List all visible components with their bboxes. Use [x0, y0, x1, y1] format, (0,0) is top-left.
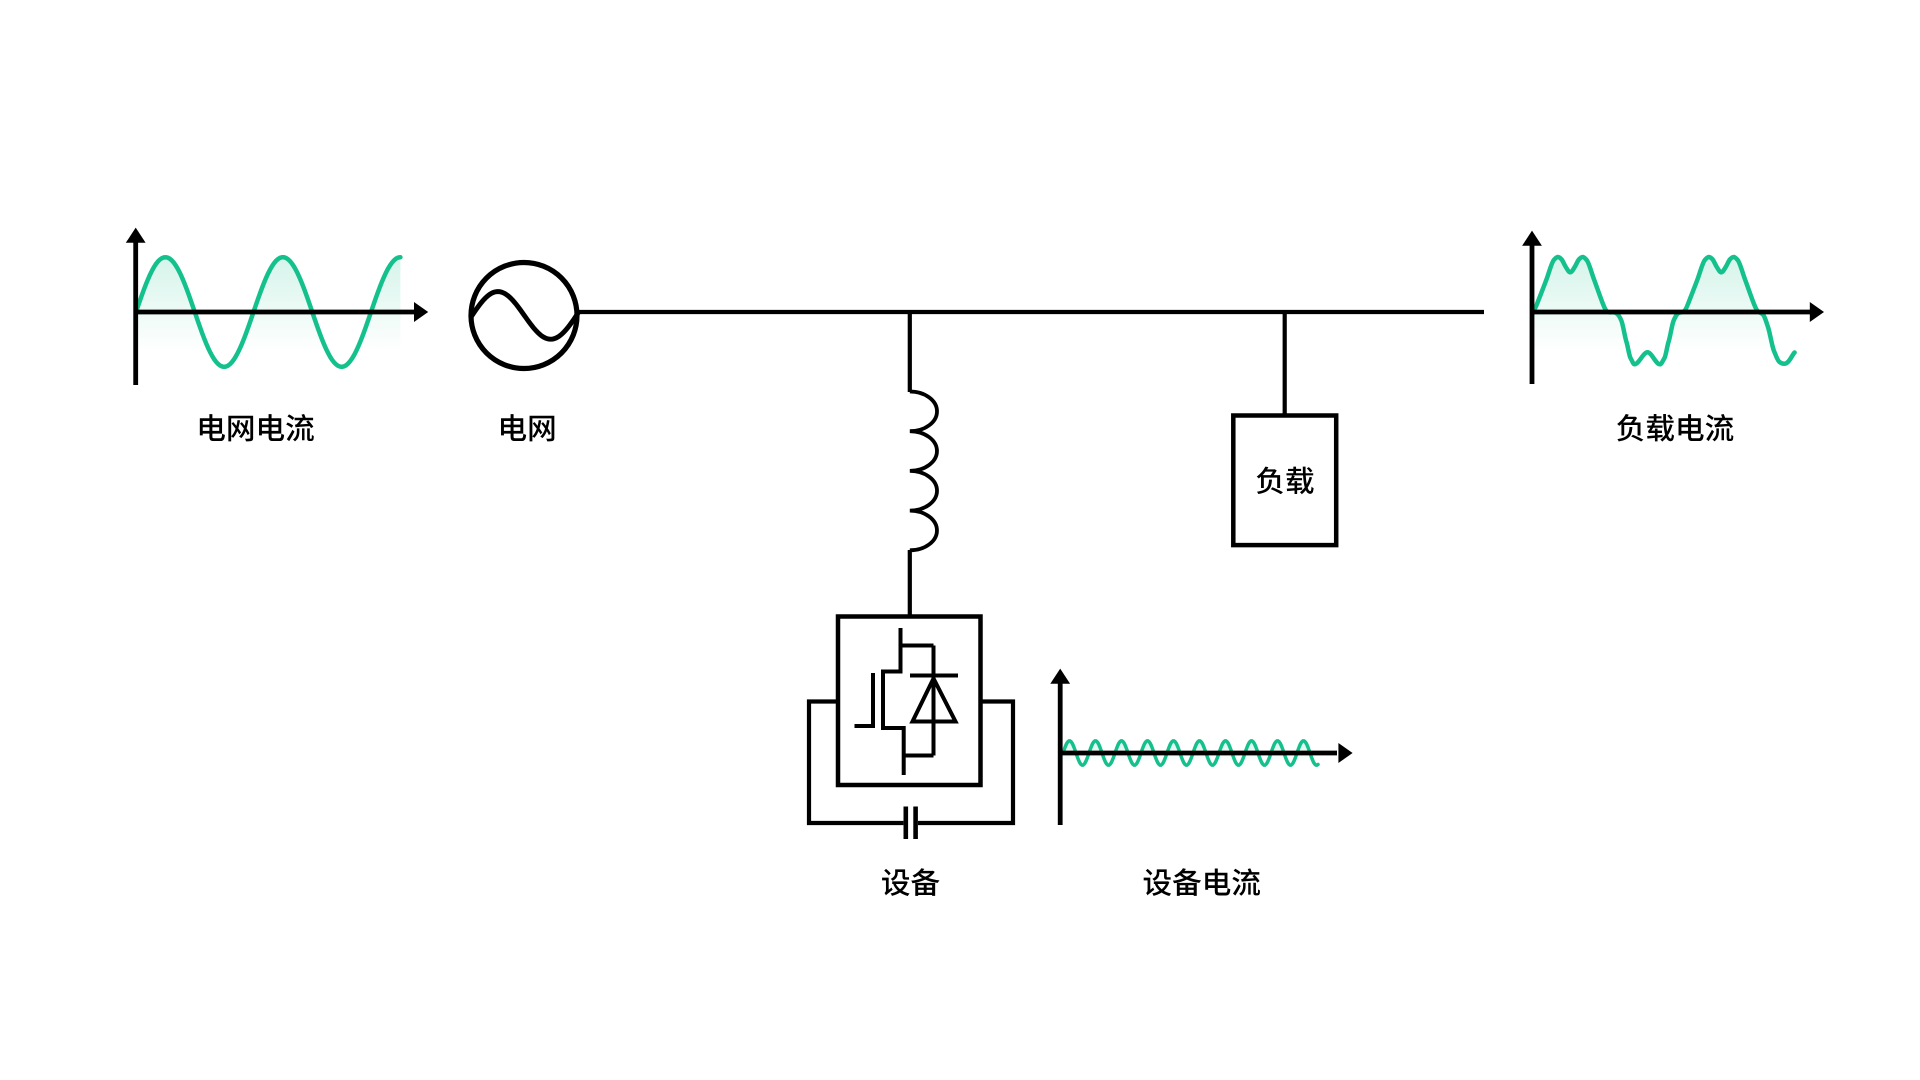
IGBT Q1 collector lead [883, 628, 901, 672]
wire: IGBT emitter to diode anode [904, 754, 934, 758]
device-current waveform [1063, 741, 1318, 765]
AC source V1 circle [471, 263, 577, 369]
load-current graph y-axis [1530, 243, 1535, 384]
device box (converter) [838, 617, 981, 786]
wire: IGBT collector to diode cathode [901, 644, 934, 648]
diode D1 vertical lead [932, 646, 936, 756]
load-current graph x-axis [1532, 310, 1810, 315]
grid-current waveform fill [136, 257, 400, 368]
load-current waveform [1533, 257, 1795, 364]
device-current graph x-axis arrowhead [1338, 743, 1352, 763]
inductor L1 [910, 392, 937, 551]
label 负载 (load) [1257, 467, 1314, 495]
load-current graph y-axis arrowhead [1522, 231, 1542, 246]
AC source V1 sine symbol [470, 292, 578, 340]
wire: branch down to inductor [908, 312, 912, 392]
device-current graph y-axis [1058, 681, 1063, 825]
grid-current graph x-axis arrowhead [414, 302, 428, 322]
diode D1 cathode bar [910, 674, 958, 678]
device-current waveform fill [1063, 741, 1318, 770]
IGBT Q1 gate bar and lead [855, 673, 874, 726]
load-current waveform fill [1533, 257, 1795, 368]
load box [1233, 416, 1336, 546]
capacitor C1 left plate [903, 807, 908, 840]
label 设备 (device) [882, 868, 939, 896]
wire: inductor to device box [908, 550, 912, 617]
grid-current waveform [136, 257, 400, 367]
wire: main bus from source to right [577, 310, 1484, 314]
capacitor C1 right plate [913, 807, 918, 840]
grid-current graph x-axis [136, 310, 415, 315]
label 电网 (grid) [501, 414, 554, 441]
wire: device box left to DC-link [809, 702, 903, 824]
grid-current graph y-axis [133, 240, 138, 385]
label 负载电流 (load current) [1617, 414, 1733, 442]
label 电网电流 (grid current) [200, 414, 314, 441]
wire: device box right to DC-link [918, 702, 1013, 824]
device-current graph y-axis arrowhead [1050, 669, 1070, 684]
wire: branch down to load [1283, 312, 1287, 416]
device-current graph x-axis [1060, 751, 1337, 756]
label 设备电流 (device current) [1144, 868, 1260, 896]
IGBT Q1 body bar [881, 670, 885, 731]
IGBT Q1 emitter stub and lead [883, 728, 904, 775]
load-current graph x-axis arrowhead [1810, 302, 1824, 322]
diode D1 triangle [913, 679, 956, 722]
grid-current graph y-axis arrowhead [126, 228, 146, 243]
